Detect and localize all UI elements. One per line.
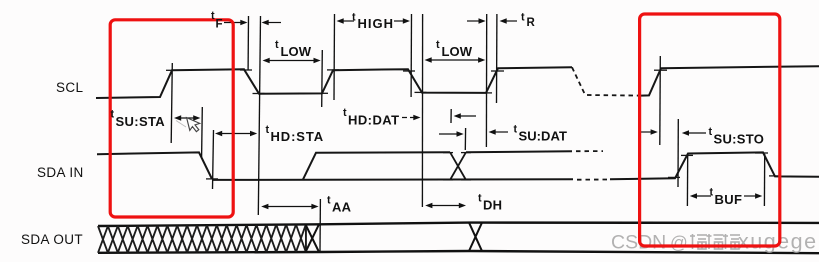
svg-text:xugege: xugege xyxy=(738,230,818,254)
svg-text:t: t xyxy=(710,187,714,199)
svg-text:t: t xyxy=(352,12,356,24)
svg-text:DH: DH xyxy=(483,198,502,213)
svg-text:@: @ xyxy=(670,233,688,253)
svg-text:SDA IN: SDA IN xyxy=(37,165,84,180)
svg-text:SCL: SCL xyxy=(56,80,84,95)
svg-text:LOW: LOW xyxy=(442,44,473,59)
svg-text:LOW: LOW xyxy=(281,44,312,59)
svg-text:t: t xyxy=(266,124,270,136)
svg-text:t: t xyxy=(478,193,482,205)
svg-text:t: t xyxy=(275,39,279,51)
svg-text:t: t xyxy=(514,124,518,136)
svg-text:SU:DAT: SU:DAT xyxy=(519,129,567,144)
svg-text:t: t xyxy=(709,126,713,138)
svg-text:SU:STO: SU:STO xyxy=(714,132,765,147)
svg-text:HIGH: HIGH xyxy=(358,16,395,31)
svg-text:F: F xyxy=(216,19,223,31)
svg-text:BUF: BUF xyxy=(715,192,743,207)
svg-text:t: t xyxy=(343,107,347,119)
svg-text:R: R xyxy=(527,17,536,29)
svg-text:HD:STA: HD:STA xyxy=(271,129,325,144)
svg-text:HD:DAT: HD:DAT xyxy=(348,113,400,128)
svg-text:SU:STA: SU:STA xyxy=(116,114,166,129)
svg-text:SDA OUT: SDA OUT xyxy=(21,232,83,247)
svg-text:t: t xyxy=(111,109,115,121)
svg-text:t: t xyxy=(521,12,525,24)
svg-text:t: t xyxy=(211,10,215,22)
svg-text:AA: AA xyxy=(332,200,352,215)
svg-text:t: t xyxy=(327,195,331,207)
svg-text:t: t xyxy=(436,39,440,51)
